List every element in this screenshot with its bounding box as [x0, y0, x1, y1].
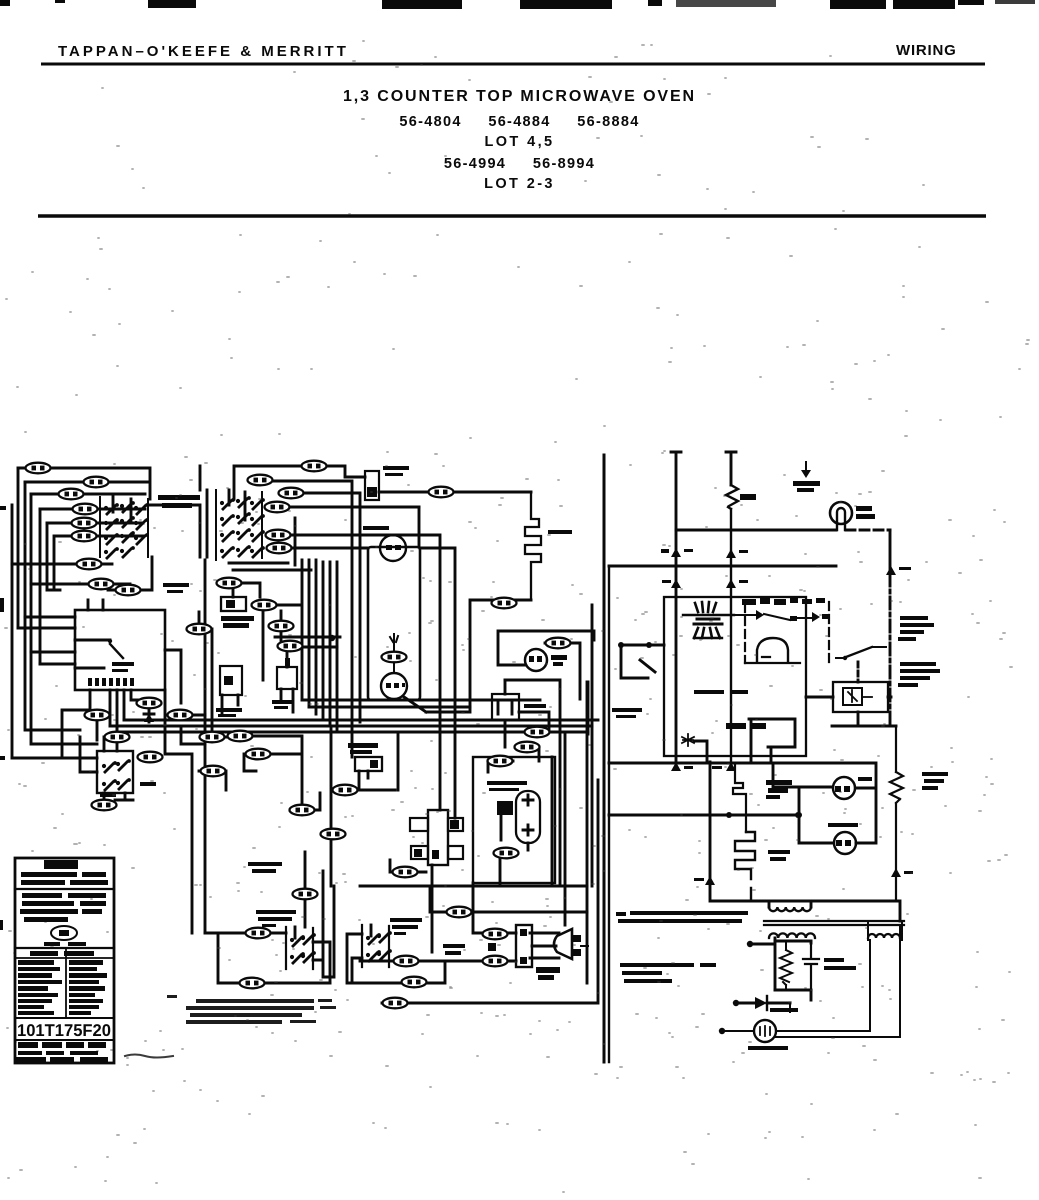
node 40	[494, 848, 519, 859]
wire node row 8	[108, 557, 152, 590]
HV capacitor C2	[775, 941, 856, 990]
timer motor M1	[381, 634, 407, 699]
relay arch inside control	[757, 638, 788, 662]
node 20	[187, 624, 212, 635]
HV capacitor C1 box	[473, 757, 555, 883]
oven lamp L1	[498, 631, 594, 671]
node 8	[89, 579, 114, 590]
node 11	[248, 475, 273, 486]
wire row 605	[252, 605, 340, 647]
junction triangle J4	[726, 579, 736, 588]
wire left rail 5	[39, 509, 42, 664]
wire lamp rail dash-dot	[676, 529, 836, 532]
node 13	[265, 502, 290, 513]
wire to interlock A row 5	[54, 536, 143, 590]
scan scribble	[125, 1055, 173, 1058]
wire 715 row	[166, 715, 233, 790]
node 41	[293, 889, 318, 900]
label secondary interlock (bottom)	[256, 910, 296, 927]
junction triangle J5	[886, 566, 896, 575]
wire browner down-left	[426, 600, 531, 712]
wire node hooks	[621, 645, 664, 678]
wire lower-mid links	[244, 736, 320, 810]
label blower duct	[766, 780, 792, 799]
junction triangle J8	[705, 876, 715, 885]
terminal node D	[733, 1000, 739, 1006]
wire node row 6	[12, 563, 112, 566]
wire A to B	[148, 466, 207, 557]
wire top rail	[18, 468, 150, 499]
label timer	[221, 616, 254, 628]
junction triangle J2	[726, 549, 736, 558]
node 16	[217, 578, 242, 589]
wire loop to interlock D	[205, 933, 330, 983]
wire rail 815	[609, 814, 798, 817]
node 37	[525, 727, 550, 738]
diode CR1	[144, 709, 154, 722]
junction triangle J1	[671, 548, 681, 557]
wire cap box right rails	[552, 682, 588, 983]
left margin scan marks	[0, 506, 6, 930]
wire node row 7	[31, 583, 130, 586]
terminal board TB1	[516, 925, 532, 967]
node 7	[77, 559, 102, 570]
oven cavity lamp L2	[830, 502, 875, 530]
node 22	[200, 732, 225, 743]
label control board	[694, 690, 748, 694]
bleeder resistor R4	[780, 941, 792, 990]
wire 933 row	[473, 883, 516, 933]
wire to interlock A row 4	[47, 522, 143, 525]
legend UL logo	[51, 926, 77, 940]
stirrer motor M3	[828, 823, 858, 854]
node 3	[59, 489, 84, 500]
wire row 493	[303, 493, 360, 722]
header rule 1	[41, 63, 985, 66]
terminal node E	[719, 1028, 725, 1034]
wire row 583	[218, 583, 263, 680]
wire relay pin drops	[62, 690, 150, 758]
note line right	[616, 911, 748, 923]
legend divider 3	[15, 1017, 114, 1019]
wire 961 row	[360, 960, 516, 963]
wire relay feeds	[18, 590, 75, 664]
LV transformer T2	[683, 602, 734, 638]
thermal fuse F3	[890, 726, 948, 901]
wire secondary taps	[810, 941, 813, 1000]
wire row 535	[290, 535, 440, 810]
node 43	[240, 978, 265, 989]
wire control inner mesh	[749, 719, 795, 762]
terminal node A	[618, 642, 624, 648]
HV diode CR2	[736, 996, 798, 1012]
node 30	[246, 749, 271, 760]
magnetron V1	[748, 1020, 788, 1050]
interlock switch assembly D	[286, 927, 330, 983]
control board inner wire 615	[734, 614, 812, 620]
label secondary interlock sw	[158, 495, 200, 508]
wire row 548	[291, 507, 455, 818]
node 12	[279, 488, 304, 499]
wire relay3 links	[806, 697, 896, 726]
label interlock small	[612, 708, 642, 718]
header rule 2	[38, 214, 986, 217]
wire bottom rail 886	[360, 885, 587, 888]
wire lowerbox links	[80, 715, 117, 772]
node 50	[383, 998, 408, 1009]
node 38	[515, 742, 540, 753]
node 4	[73, 504, 98, 515]
wire supply line L2	[726, 452, 736, 485]
wire thermal fuse drop	[304, 852, 307, 927]
terminal node C	[747, 941, 753, 947]
junction triangle J6	[671, 762, 681, 771]
section divider line	[603, 455, 606, 1062]
wire lower feeds	[25, 617, 97, 744]
wire relay2 links	[331, 726, 398, 886]
thermal fuse label	[248, 862, 282, 873]
node 34	[382, 652, 407, 663]
node 44	[393, 867, 418, 878]
node 23	[201, 766, 226, 777]
wire timer motor out	[404, 697, 426, 712]
wire HV primary rail	[710, 884, 900, 921]
label block right-left	[620, 963, 716, 983]
node 45	[447, 907, 472, 918]
wire left rail 2	[17, 468, 20, 628]
node 46	[483, 929, 508, 940]
wire relay right drop	[165, 650, 205, 933]
node 24	[137, 698, 162, 709]
node 31	[290, 805, 315, 816]
wire blockE hooks	[347, 934, 362, 983]
relay K4	[410, 810, 463, 865]
starburst node	[682, 734, 694, 746]
wire left rail 6	[46, 523, 49, 590]
wire B bottom rows	[229, 563, 311, 570]
node 49	[402, 977, 427, 988]
node 26	[105, 732, 130, 743]
wire bundle fan to right	[110, 700, 598, 732]
node 2	[84, 477, 109, 488]
relay coil box K5	[221, 597, 246, 611]
oven switch S3	[272, 646, 297, 712]
node 33	[278, 641, 303, 652]
wire starburst out	[694, 741, 707, 762]
timer switch S2	[216, 666, 242, 717]
wire magnetron links	[722, 921, 902, 1037]
node 18	[269, 621, 294, 632]
node 25	[85, 710, 110, 721]
wire capbox bottom	[500, 815, 528, 883]
oven relay K1	[75, 600, 165, 690]
fuse label mid	[443, 944, 465, 955]
wire left rail 4	[30, 494, 33, 652]
HV transformer T3	[764, 901, 904, 938]
fan motor M2	[833, 777, 872, 799]
wire bundle mid verticals	[302, 560, 337, 732]
node 39	[488, 756, 513, 767]
top edge scan fragments	[0, 0, 1035, 9]
power plug P1	[488, 929, 588, 980]
label small mid-left	[163, 583, 189, 593]
wire secondary left	[750, 938, 775, 990]
buzzer B1	[363, 526, 406, 561]
note paragraph	[167, 995, 336, 1024]
node 19	[429, 487, 454, 498]
node 36	[546, 638, 571, 649]
wire fuse to browner	[379, 491, 531, 494]
node 14	[266, 530, 291, 541]
wire rail 566	[609, 565, 836, 568]
node 35	[492, 598, 517, 609]
node 1	[26, 463, 51, 474]
wire B top to fuse	[234, 466, 365, 565]
primary interlock E label	[390, 918, 422, 935]
node 51	[321, 829, 346, 840]
junction triangle J9	[891, 868, 901, 877]
node 47	[394, 956, 419, 967]
heating element R3	[735, 832, 790, 901]
wire to interlock A row 1	[25, 481, 148, 484]
wire B row feeds right	[272, 481, 352, 757]
wire left drop 710	[709, 762, 712, 884]
wire to interlock A row 3	[40, 508, 145, 511]
wire 1002 rail	[382, 780, 598, 1003]
fuse F2	[726, 485, 756, 762]
node 5	[72, 518, 97, 529]
junction triangle J3	[671, 579, 681, 588]
node 6	[72, 531, 97, 542]
label right col 1	[898, 616, 934, 641]
junction triangle J7	[726, 762, 736, 771]
interior zigzag S7	[733, 763, 746, 832]
fuse F1	[365, 466, 409, 500]
node 42	[246, 928, 271, 939]
node 17	[252, 600, 277, 611]
wire cutout links	[488, 680, 560, 886]
legend color-code table	[30, 951, 94, 956]
node 21	[168, 710, 193, 721]
cook switch S8	[348, 743, 382, 790]
legend divider 2	[15, 947, 114, 949]
wire motor loop	[773, 763, 876, 843]
wire left rail 1	[11, 505, 14, 758]
wire rail 762	[609, 762, 876, 765]
node 15	[267, 543, 292, 554]
legend divider 4	[15, 1039, 114, 1041]
node 48	[483, 956, 508, 967]
wire 982 row	[360, 961, 445, 983]
legend title bar	[44, 860, 78, 869]
interlock switch assembly E	[362, 925, 392, 967]
interlock switch assembly B	[216, 490, 265, 560]
node 10	[302, 461, 327, 472]
node 28	[92, 800, 117, 811]
thermal cutout S5	[492, 680, 546, 720]
relay K3	[833, 682, 888, 712]
wire blockD right rails	[313, 871, 334, 977]
wire supply line L1	[671, 452, 681, 762]
wire mid column rails	[199, 560, 212, 933]
terminal node B	[646, 642, 652, 648]
door switch S4	[97, 751, 156, 805]
door sense switch S6	[836, 647, 886, 682]
control logic dashed box	[744, 604, 746, 663]
wire to interlock A row 2	[31, 493, 145, 496]
wire 871 row	[390, 860, 432, 952]
browner element R2	[525, 492, 572, 600]
wire left rail 3	[24, 482, 27, 617]
legend box	[15, 858, 114, 1063]
label right col 2	[898, 662, 940, 687]
legend divider 1	[15, 888, 114, 890]
wire row 507	[289, 506, 419, 509]
wire relay bottom rail	[12, 757, 97, 760]
control board outline	[664, 597, 806, 756]
node 9	[116, 585, 141, 596]
interlock switch assembly A	[100, 497, 149, 558]
timer T1 body	[368, 547, 420, 700]
wire lamp right drop	[545, 605, 592, 886]
node 27	[138, 752, 163, 763]
arrow marker top	[793, 462, 820, 492]
node 29	[228, 731, 253, 742]
svg-text:101T175F20: 101T175F20	[17, 1021, 111, 1040]
node 32	[333, 785, 358, 796]
wire 912 row	[430, 886, 587, 912]
